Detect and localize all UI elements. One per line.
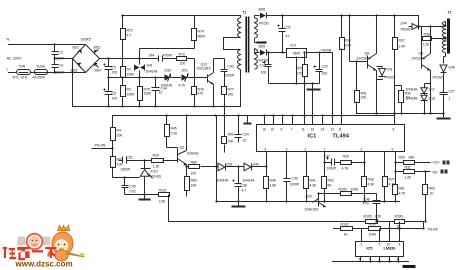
node +12V output — [432, 161, 450, 165]
svg-text:150K: 150K — [127, 73, 136, 77]
resistor R105 2.2K — [366, 220, 378, 224]
svg-text:R27: R27 — [389, 178, 395, 182]
svg-text:IC5: IC5 — [367, 246, 374, 251]
transistor Q5 2SC3039 — [422, 54, 431, 71]
diode D21 1N4148 — [218, 163, 245, 171]
resistor R32 1.2K — [396, 170, 431, 174]
wire LM339 bottom ground row — [333, 261, 409, 263]
resistor R63 1K — [423, 172, 428, 222]
resistor R36 3.9K — [340, 16, 345, 125]
capacitor C46 4.7u — [373, 194, 381, 222]
svg-text:2SA933: 2SA933 — [187, 152, 199, 156]
wire 7805 output +5VSB — [307, 52, 333, 54]
svg-text:D41: D41 — [387, 68, 393, 72]
node L — [7, 67, 10, 72]
svg-text:D44: D44 — [401, 22, 407, 26]
svg-text:11: 11 — [339, 128, 342, 132]
svg-text:4A 250V: 4A 250V — [33, 76, 46, 80]
ground center tap mark — [257, 42, 267, 44]
svg-text:10: 10 — [311, 128, 315, 132]
svg-text:R29: R29 — [153, 154, 159, 158]
svg-text:1.2K: 1.2K — [405, 176, 413, 180]
diode D41 FR302 — [377, 67, 386, 80]
capacitor C3 2200P — [52, 45, 59, 59]
svg-text:47: 47 — [286, 35, 290, 39]
svg-text:100: 100 — [261, 71, 267, 75]
svg-text:WL431: WL431 — [151, 175, 162, 179]
svg-text:R105: R105 — [364, 215, 372, 219]
svg-text:16: 16 — [263, 128, 267, 132]
svg-text:13: 13 — [321, 128, 325, 132]
capacitor C38 4.7 — [233, 167, 242, 202]
svg-text:R41: R41 — [310, 179, 316, 183]
ground standby — [307, 84, 321, 90]
capacitor C27 1 — [440, 87, 448, 114]
resistor R28 4.3K — [362, 152, 367, 202]
capacitor C5 200 electrolytic — [104, 59, 113, 78]
svg-text:10K: 10K — [191, 184, 198, 188]
svg-text:2SA1015: 2SA1015 — [305, 208, 319, 212]
diode BD1 — [73, 46, 82, 54]
svg-text:Z44: Z44 — [149, 54, 155, 58]
svg-text:1.2K: 1.2K — [423, 43, 431, 47]
node TL494 bottom pin numbers — [265, 148, 394, 152]
resistor R74 560K — [192, 16, 197, 49]
node LM339 pin numbers — [359, 243, 401, 262]
capacitor C51 3300P — [119, 157, 145, 164]
wire Q5 emitter down — [430, 71, 432, 114]
svg-text:1.1K: 1.1K — [153, 165, 161, 169]
diode BD2 — [94, 46, 101, 54]
svg-text:1.8K: 1.8K — [270, 184, 278, 188]
svg-text:R72: R72 — [127, 29, 133, 33]
svg-text:2SC3039: 2SC3039 — [412, 57, 426, 61]
svg-text:2.2K: 2.2K — [171, 132, 179, 136]
snubber capacitor Z44 4700P with resistor R73 150 — [140, 49, 195, 62]
svg-text:R100: R100 — [339, 188, 347, 192]
resistor R38 1.2K — [422, 27, 446, 56]
wire standby ground row — [269, 83, 320, 85]
svg-text:PS-ON: PS-ON — [95, 144, 106, 148]
diode D46 FR152 — [440, 65, 447, 87]
svg-text:IC1: IC1 — [308, 134, 317, 140]
svg-text:TVR: TVR — [19, 65, 26, 69]
svg-text:2SC3039: 2SC3039 — [357, 57, 371, 61]
svg-text:1000P: 1000P — [225, 74, 235, 78]
svg-text:Q5: Q5 — [419, 52, 424, 56]
svg-text:R80: R80 — [191, 161, 197, 165]
svg-text:R70: R70 — [297, 67, 303, 71]
svg-text:2200P: 2200P — [55, 71, 65, 75]
resistor R2 150K — [121, 59, 126, 78]
watermark faded glyphs — [18, 237, 51, 246]
watermark red text brand — [3, 247, 57, 260]
node junction dots driver — [340, 14, 446, 114]
capacitor C6 200 electrolytic — [104, 78, 113, 107]
svg-text:R77: R77 — [228, 88, 234, 92]
resistor R27 4.7K — [383, 152, 388, 202]
svg-text:www.dzsc.com: www.dzsc.com — [15, 260, 73, 269]
node +5V output — [432, 170, 448, 175]
capacitor C34 10 — [235, 116, 242, 143]
svg-text:2SC1815: 2SC1815 — [197, 67, 211, 71]
wire Q13 collector top — [214, 59, 225, 73]
watermark mascot body — [48, 226, 85, 262]
wire TL431 bottom row — [125, 194, 159, 196]
transformer T1 core — [246, 17, 248, 73]
svg-text:C40: C40 — [130, 185, 136, 189]
svg-text:3.3K: 3.3K — [159, 200, 167, 204]
capacitor C40 0.01 — [122, 178, 129, 195]
diode D17 1N4148 — [421, 84, 431, 96]
svg-text:TL494: TL494 — [333, 134, 350, 140]
svg-text:7805: 7805 — [293, 52, 301, 56]
wire LM339 lower row PS-OK — [334, 222, 424, 229]
svg-text:R102: R102 — [341, 223, 349, 227]
svg-text:C30: C30 — [292, 177, 298, 181]
resistor R39 1K — [395, 86, 404, 114]
resistor R102 1K — [341, 227, 353, 231]
svg-text:4700P: 4700P — [163, 54, 173, 58]
svg-text:+12V: +12V — [432, 161, 441, 165]
svg-text:BD3: BD3 — [71, 69, 78, 73]
diode D40 1N4148 — [244, 163, 267, 171]
svg-text:FR152: FR152 — [259, 22, 269, 26]
watermark red seal ring with face — [27, 234, 43, 250]
svg-text:BD1: BD1 — [73, 46, 80, 50]
svg-text:FR302: FR302 — [385, 76, 395, 80]
svg-text:IC4: IC4 — [291, 44, 296, 48]
svg-text:C14: C14 — [260, 64, 266, 68]
capacitor C4 2200P — [52, 59, 59, 73]
svg-text:+5VSB: +5VSB — [321, 49, 332, 53]
svg-text:R106: R106 — [395, 215, 403, 219]
node junction dots feedback — [394, 161, 426, 222]
svg-text:D40: D40 — [253, 163, 259, 167]
svg-text:0.01: 0.01 — [130, 190, 137, 194]
svg-text:D21: D21 — [227, 163, 233, 167]
wire primary top lead — [240, 16, 242, 18]
wire DC+ rail from bridge — [100, 58, 140, 60]
svg-text:11: 11 — [302, 128, 305, 132]
resistor R29 1.1K — [145, 159, 178, 163]
node junction dots TL494 rail — [212, 105, 342, 116]
ground control bus — [232, 202, 246, 207]
svg-text:1: 1 — [449, 97, 451, 101]
resistor R76 470 — [192, 78, 197, 107]
resistor R45 2.2K — [165, 116, 178, 151]
svg-text:150: 150 — [180, 62, 186, 66]
svg-text:C51: C51 — [127, 156, 133, 160]
capacitor C29 100 — [314, 53, 323, 84]
svg-text:R101: R101 — [159, 189, 167, 193]
resistor R61 4.7K — [393, 185, 398, 195]
wire Q13 emitter to bus — [213, 85, 215, 107]
IC1 TL494 — [257, 125, 405, 152]
watermark www.dzsc.com — [15, 260, 73, 269]
svg-text:100: 100 — [191, 172, 197, 176]
primary winding lower — [238, 50, 241, 70]
wire N input line — [9, 44, 86, 46]
node junction dots control left — [111, 147, 145, 195]
resistor R62 10K — [111, 149, 140, 178]
diode BD3 — [71, 63, 82, 73]
node junction dots AC area — [53, 43, 73, 73]
svg-text:4.7: 4.7 — [242, 189, 247, 193]
IC5 LM339 — [356, 242, 404, 257]
shunt regulator IC10 WL431 — [140, 161, 152, 195]
wire LM339 top pin columns — [362, 222, 400, 242]
svg-text:R3: R3 — [127, 88, 131, 92]
wire primary negative bus — [73, 106, 241, 108]
wire TL494 pin8 column (bottom right) — [395, 152, 397, 202]
svg-text:270: 270 — [297, 72, 303, 76]
svg-text:150K: 150K — [127, 93, 136, 97]
svg-text:12: 12 — [331, 128, 335, 132]
primary winding upper — [238, 18, 241, 38]
resistor R40 4.3K — [304, 152, 309, 202]
svg-text:200: 200 — [112, 97, 118, 101]
capacitor C20 47 — [278, 16, 286, 53]
svg-text:R37: R37 — [399, 39, 405, 43]
svg-text:10: 10 — [271, 128, 275, 132]
svg-text:FR152: FR152 — [433, 76, 443, 80]
svg-text:R32: R32 — [405, 166, 411, 170]
resistor R4 10K — [111, 116, 116, 149]
svg-text:D18: D18 — [429, 97, 435, 101]
svg-text:R46: R46 — [270, 179, 276, 183]
resistor R101 3.3K — [159, 193, 170, 222]
ground TL431 — [139, 195, 151, 200]
svg-text:BD6: BD6 — [259, 8, 266, 12]
svg-text:FR152: FR152 — [259, 59, 269, 63]
resistor R100 100K — [319, 192, 377, 196]
transistor Q3 2SA933 — [178, 151, 187, 166]
svg-text:R61: R61 — [399, 187, 405, 191]
node junction dots LM339 rows — [317, 192, 424, 262]
bridge rectifier S20K5 diamond — [73, 45, 100, 73]
svg-text:+5V: +5V — [432, 171, 439, 175]
wire Q3 collector to rail — [186, 116, 188, 151]
varistor TVR — [17, 70, 31, 75]
resistor R75 150K — [138, 78, 143, 107]
svg-text:BD2: BD2 — [94, 46, 101, 50]
svg-text:BD5: BD5 — [259, 45, 266, 49]
svg-text:100K: 100K — [351, 188, 360, 192]
svg-text:R30: R30 — [343, 155, 349, 159]
svg-text:D17: D17 — [429, 88, 435, 92]
diode D44 FR302 — [409, 16, 444, 30]
resistor R72 4.7 — [121, 16, 126, 59]
svg-text:1N4148: 1N4148 — [406, 97, 418, 101]
svg-text:1000P: 1000P — [290, 183, 300, 187]
svg-text:200: 200 — [112, 71, 118, 75]
svg-text:C6: C6 — [112, 92, 116, 96]
svg-text:R74: R74 — [198, 30, 204, 34]
fuse FUSE 4A250V — [35, 70, 48, 75]
resistor R70 270 — [303, 53, 308, 84]
diode BD6 FR152 — [255, 13, 270, 19]
node N — [7, 37, 10, 42]
svg-text:S20K5: S20K5 — [81, 38, 91, 42]
svg-text:R33: R33 — [399, 156, 405, 160]
svg-text:ZD1: ZD1 — [182, 69, 188, 73]
wire TL494 top pin stubs — [265, 116, 323, 125]
wire bridge minus drop — [72, 59, 74, 107]
svg-text:AC 220V: AC 220V — [7, 56, 22, 61]
zener ZD1 4.7V — [182, 74, 190, 82]
svg-text:4.7K: 4.7K — [399, 192, 407, 196]
transformer T1 — [224, 16, 241, 107]
svg-text:R38: R38 — [424, 33, 430, 37]
svg-text:3.9K: 3.9K — [345, 44, 353, 48]
svg-text:4.7K: 4.7K — [342, 167, 350, 171]
transistor Q13 2SC1815 — [208, 73, 214, 85]
svg-text:R2: R2 — [127, 68, 131, 72]
svg-text:D41: D41 — [147, 64, 153, 68]
svg-text:10K: 10K — [228, 140, 235, 144]
capacitor C42 1000P — [221, 59, 228, 87]
svg-text:FR302: FR302 — [401, 28, 411, 32]
svg-text:1N4148: 1N4148 — [406, 88, 418, 92]
svg-text:C5: C5 — [112, 66, 116, 70]
capacitor C14 100 — [263, 53, 272, 84]
svg-text:R73: R73 — [179, 53, 185, 57]
svg-text:T2: T2 — [448, 11, 452, 15]
svg-text:C34: C34 — [243, 133, 249, 137]
transformer T2 — [442, 22, 445, 64]
svg-text:4.7: 4.7 — [127, 34, 132, 38]
svg-text:4.7V: 4.7V — [179, 84, 187, 88]
wire primary mid jog — [224, 38, 241, 50]
wire control mid column — [216, 116, 218, 202]
IC4 7805 regulator — [287, 49, 307, 58]
node AC 220V label — [7, 56, 22, 61]
svg-text:1000P: 1000P — [327, 167, 337, 171]
capacitor C44 10 — [152, 78, 160, 107]
wire Q6 collector to bus — [376, 16, 378, 54]
wire ground bus of control section — [217, 201, 400, 203]
diode D18 1N4148 — [421, 95, 428, 113]
ground LM339 — [403, 265, 416, 268]
ground tick near TL494 pin — [244, 116, 252, 124]
diode D41 1N4148 dual — [135, 59, 145, 78]
transistor Q6 2SC3039 — [368, 54, 377, 71]
svg-text:C32: C32 — [324, 155, 330, 159]
wire top primary bus — [123, 15, 241, 17]
wire +5VSB down to TL494 pin 12 — [332, 53, 334, 125]
svg-text:1N4148: 1N4148 — [243, 179, 255, 183]
transistor Q20 2SA1015 — [313, 194, 326, 208]
transformer T1 secondary windings — [255, 16, 260, 70]
resistor R77 160 — [222, 87, 227, 116]
node +5VSB — [321, 49, 332, 53]
wire driver emitter bottom row — [357, 113, 444, 115]
svg-text:Q3: Q3 — [180, 146, 185, 150]
resistor R42 5K — [322, 152, 327, 202]
wire LM339 bottom pin columns — [361, 257, 399, 262]
svg-text:R28: R28 — [368, 178, 374, 182]
node PS-OK output — [428, 228, 439, 232]
wire standby ground down to TL494 pin 7 — [305, 84, 313, 125]
wire snubber right column down — [194, 59, 196, 78]
wire 7805 ground pin — [296, 57, 298, 84]
svg-text:T1: T1 — [243, 11, 247, 15]
svg-text:FUSE: FUSE — [37, 65, 47, 69]
wire Q6 base feed — [350, 16, 368, 62]
svg-text:160: 160 — [228, 93, 234, 97]
svg-text:4.7K: 4.7K — [389, 183, 397, 187]
svg-text:2.2K: 2.2K — [375, 215, 383, 219]
wire top right +22V bus — [270, 15, 419, 17]
svg-text:C3: C3 — [59, 51, 63, 55]
svg-text:470: 470 — [198, 92, 204, 96]
svg-text:N: N — [7, 37, 10, 42]
wire capacitor mid to bridge left corner — [55, 58, 73, 60]
node junction dots DC area — [107, 14, 195, 107]
svg-text:150K: 150K — [144, 92, 153, 96]
svg-text:LM339: LM339 — [384, 246, 397, 251]
svg-text:C4: C4 — [59, 64, 63, 68]
wire L input line — [9, 72, 86, 74]
capacitor C32 1000P with resistor R30 4.7K — [325, 157, 365, 166]
svg-text:Q20: Q20 — [306, 195, 312, 199]
wire Q5 collector up — [430, 27, 432, 54]
resistor R50 10K — [222, 116, 227, 153]
svg-text:3300P: 3300P — [121, 168, 131, 172]
svg-text:C20: C20 — [285, 26, 291, 30]
resistor R60 10K — [185, 167, 190, 197]
resistor R3 150K — [121, 78, 126, 107]
svg-text:4.3K: 4.3K — [368, 183, 376, 187]
wire C5/C6 midpoint line — [109, 77, 208, 79]
svg-text:4.7u: 4.7u — [363, 202, 370, 206]
svg-text:1N4148: 1N4148 — [161, 84, 173, 88]
capacitor C30 1000P — [284, 152, 291, 202]
svg-text:63K: 63K — [409, 156, 416, 160]
svg-text:560K: 560K — [198, 35, 207, 39]
resistor R46 1.8K — [264, 152, 269, 202]
svg-text:15K: 15K — [361, 96, 368, 100]
svg-text:100: 100 — [322, 72, 328, 76]
wire control top rail — [113, 115, 395, 117]
svg-text:10K: 10K — [117, 134, 124, 138]
transformer T2 core — [447, 19, 450, 54]
svg-text:Q6: Q6 — [365, 52, 370, 56]
svg-text:NTC 10-9: NTC 10-9 — [13, 76, 28, 80]
diode BD4 — [94, 63, 101, 73]
node junction dots standby — [267, 14, 320, 84]
svg-text:C29: C29 — [322, 65, 328, 69]
svg-text:R4: R4 — [117, 129, 121, 133]
wire LM339 upper row — [169, 221, 424, 223]
svg-text:R60: R60 — [191, 179, 197, 183]
svg-text:C27: C27 — [449, 90, 455, 94]
svg-text:D30: D30 — [165, 69, 171, 73]
ground driver — [437, 114, 451, 119]
resistor R106 1K — [395, 220, 405, 224]
node junction dots bottom rows — [165, 114, 385, 202]
svg-text:BD4: BD4 — [95, 69, 102, 73]
svg-text:100K: 100K — [369, 233, 378, 237]
svg-text:10: 10 — [243, 139, 247, 143]
svg-text:R63: R63 — [429, 187, 435, 191]
wire Q6 emitter down — [376, 71, 378, 114]
resistor R37 2.4K — [393, 16, 398, 125]
svg-text:PS-OK: PS-OK — [428, 228, 439, 232]
svg-text:C38: C38 — [241, 184, 247, 188]
svg-text:4.3K: 4.3K — [310, 184, 318, 188]
